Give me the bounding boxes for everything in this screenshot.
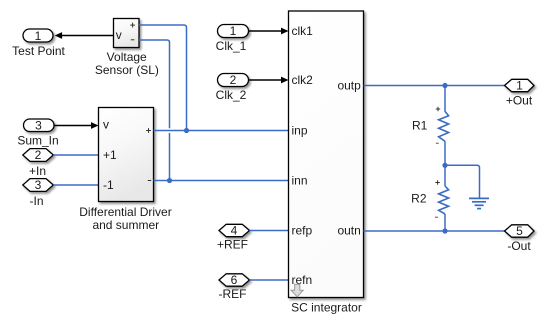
svg-text:3: 3	[35, 178, 42, 192]
svg-text:Differential Driver: Differential Driver	[79, 205, 171, 219]
wire: sensor - to inn node (with crossover gap at inp wire)	[139, 40, 170, 128]
svg-text:inp: inp	[292, 124, 308, 138]
inport 2 Clk_2	[216, 73, 249, 102]
wire: -REF to SC refn	[250, 279, 289, 281]
svg-text:Voltage: Voltage	[107, 50, 147, 64]
block U1 Voltage Sensor (SL)	[95, 19, 159, 78]
connection port 3 -In	[23, 178, 54, 208]
svg-text:-In: -In	[29, 194, 43, 208]
svg-text:v: v	[103, 118, 109, 132]
wire: diff + output to SC inp	[154, 130, 289, 132]
svg-text:inn: inn	[292, 174, 308, 188]
resistor R2	[411, 180, 448, 217]
svg-text:and summer: and summer	[92, 218, 159, 232]
wire: diff - output to SC inn	[154, 180, 289, 182]
wire: mid node to ground	[445, 165, 480, 197]
svg-text:outp: outp	[337, 79, 361, 93]
node: junction outn / R2	[442, 228, 447, 233]
svg-text:R2: R2	[411, 192, 427, 206]
outport 1 Test Point	[12, 29, 65, 58]
wire: R2 to outn node	[444, 214, 446, 231]
svg-text:Sum_In: Sum_In	[17, 133, 58, 147]
resistor R1	[412, 107, 449, 143]
wire: outp node down to R1	[444, 86, 446, 112]
svg-text:1: 1	[35, 29, 42, 43]
connection port 2 +In	[23, 148, 54, 178]
wire: +In to diff driver +1	[53, 154, 98, 156]
connection port 5 -Out	[505, 224, 535, 253]
svg-text:2: 2	[35, 148, 42, 162]
node: junction R1/R2/ground	[442, 163, 447, 168]
svg-text:outn: outn	[337, 224, 360, 238]
node: junction sensor+ on inp	[184, 128, 189, 133]
wire: sensor v output to Test Point	[55, 32, 114, 39]
svg-text:clk2: clk2	[292, 73, 314, 87]
svg-text:3: 3	[35, 119, 42, 133]
block U3 SC integrator	[289, 11, 364, 314]
svg-text:5: 5	[516, 224, 523, 238]
wire: Clk_2 to SC clk2	[249, 77, 289, 84]
svg-text:v: v	[116, 28, 122, 42]
wire: SC outn to -Out	[364, 230, 505, 232]
badge: subsystem arrow	[291, 284, 303, 297]
wire: SC outp to +Out	[364, 85, 505, 87]
wire: R1 to mid node	[444, 141, 446, 165]
wire	[169, 133, 171, 181]
wire: +REF to SC refp	[250, 230, 289, 232]
svg-text:clk1: clk1	[292, 24, 314, 38]
svg-text:-1: -1	[103, 178, 114, 192]
connection port 4 +REF	[217, 224, 250, 252]
svg-text:SC integrator: SC integrator	[291, 300, 362, 314]
wire: Sum_In to diff driver v	[54, 122, 99, 129]
svg-text:+REF: +REF	[217, 237, 248, 251]
wire: Clk_1 to SC clk1	[249, 28, 289, 35]
svg-text:1: 1	[516, 79, 523, 93]
svg-text:Clk_2: Clk_2	[216, 88, 247, 102]
inport 3 Sum_In	[17, 119, 58, 148]
svg-text:+In: +In	[29, 164, 46, 178]
wire: sensor + to inp node	[139, 25, 187, 131]
ground	[469, 198, 489, 208]
svg-text:2: 2	[230, 73, 237, 87]
svg-text:+Out: +Out	[506, 94, 533, 108]
svg-text:6: 6	[231, 273, 238, 287]
block U2 Differential Driver and summer	[79, 108, 171, 233]
svg-text:Test Point: Test Point	[12, 44, 65, 58]
connection port 6 -REF	[219, 273, 250, 301]
svg-text:Sensor (SL): Sensor (SL)	[95, 63, 159, 77]
svg-text:-REF: -REF	[219, 287, 247, 301]
svg-text:1: 1	[230, 24, 237, 38]
node: junction outp / R1	[442, 83, 447, 88]
svg-text:Clk_1: Clk_1	[216, 39, 247, 53]
wire: mid node to R2	[444, 165, 446, 186]
svg-text:R1: R1	[412, 119, 428, 133]
svg-text:+1: +1	[103, 148, 117, 162]
wire: -In to diff driver -1	[53, 184, 98, 186]
svg-text:-Out: -Out	[507, 239, 531, 253]
node: junction sensor- on inn	[167, 178, 172, 183]
svg-text:4: 4	[231, 224, 238, 238]
inport 1 Clk_1	[216, 24, 249, 53]
svg-text:refp: refp	[292, 224, 313, 238]
connection port 1 +Out	[505, 79, 535, 108]
